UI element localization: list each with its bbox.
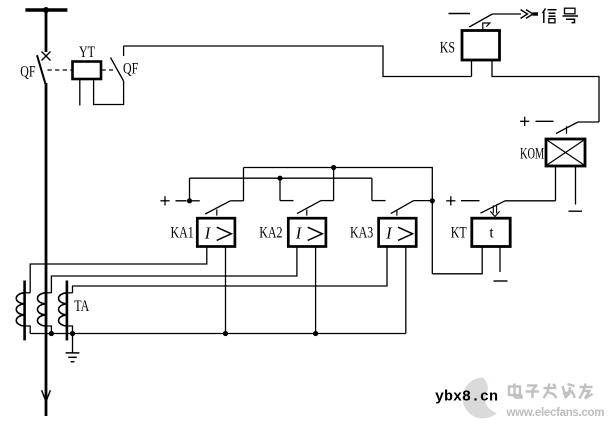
svg-text:KA3: KA3 bbox=[350, 224, 373, 241]
svg-text:KA1: KA1 bbox=[171, 224, 194, 241]
svg-text:QF: QF bbox=[123, 60, 139, 77]
svg-text:YT: YT bbox=[79, 44, 95, 61]
svg-text:t: t bbox=[489, 225, 494, 242]
svg-text:QF: QF bbox=[20, 63, 36, 80]
svg-text:TA: TA bbox=[74, 297, 89, 314]
svg-text:ybx8.cn: ybx8.cn bbox=[435, 389, 498, 406]
svg-text:KOM: KOM bbox=[520, 144, 544, 162]
svg-text:KT: KT bbox=[451, 224, 467, 241]
svg-text:KA2: KA2 bbox=[259, 224, 282, 241]
svg-text:www.elecfans.com: www.elecfans.com bbox=[506, 407, 605, 419]
svg-text:KS: KS bbox=[440, 39, 455, 56]
